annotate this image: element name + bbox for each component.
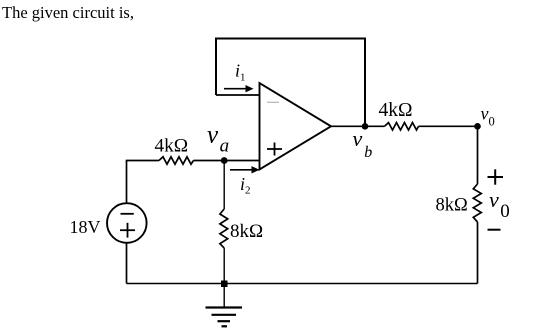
svg-text:va: va	[207, 122, 229, 157]
source minus sign	[121, 213, 134, 215]
plus polarity mark	[488, 176, 504, 178]
op-amp plus sign	[267, 148, 282, 150]
op-amp minus sign	[267, 101, 279, 103]
svg-text:i2: i2	[240, 174, 251, 197]
resistor 8k (left)	[220, 209, 228, 248]
wire node a vertical	[223, 161, 225, 210]
resistor 4k (right)	[385, 123, 419, 130]
svg-text:8kΩ: 8kΩ	[230, 221, 263, 242]
svg-text:i1: i1	[235, 61, 246, 84]
node a	[221, 157, 228, 164]
minus polarity mark	[488, 229, 501, 231]
wire right vertical lower	[477, 222, 479, 284]
wire left vertical lower	[126, 243, 128, 284]
wire inverting input	[216, 94, 260, 96]
wire resistor to node a and op-amp	[194, 160, 260, 162]
wire right vertical upper	[477, 126, 479, 184]
svg-text:v0: v0	[481, 104, 495, 129]
svg-text:8kΩ: 8kΩ	[436, 196, 468, 216]
svg-text:18V: 18V	[70, 217, 101, 237]
current arrow i2	[230, 169, 254, 171]
svg-text:The given circuit is,: The given circuit is,	[2, 3, 134, 22]
svg-text:vb: vb	[353, 126, 373, 161]
svg-text:4kΩ: 4kΩ	[379, 100, 413, 121]
ground	[223, 284, 225, 308]
wire feedback loop (top rectangle)	[216, 39, 365, 127]
wire left vertical upper	[126, 161, 128, 204]
svg-text:v0: v0	[489, 187, 510, 222]
node bottom junction	[221, 281, 228, 288]
svg-text:4kΩ: 4kΩ	[155, 136, 189, 157]
op-amp U1	[260, 83, 332, 170]
wire resistor to v0 node	[419, 125, 478, 127]
resistor 4k (left)	[159, 157, 194, 164]
wire resistor to bottom	[223, 248, 225, 284]
wire bottom	[127, 283, 478, 285]
wire op-amp output	[331, 125, 385, 127]
source plus sign	[120, 229, 135, 231]
node v0	[474, 123, 481, 130]
resistor 8k (right)	[473, 184, 481, 222]
source V1 circle	[107, 203, 147, 243]
node vb	[362, 123, 369, 130]
current arrow i1	[224, 88, 248, 90]
wire top left horizontal	[126, 160, 159, 162]
